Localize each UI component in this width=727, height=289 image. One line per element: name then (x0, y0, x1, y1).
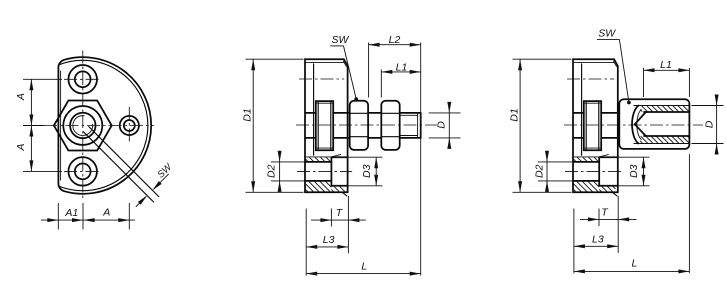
svg-text:D1: D1 (242, 108, 254, 121)
svg-text:D3: D3 (628, 164, 640, 178)
svg-text:A1: A1 (64, 207, 78, 219)
svg-text:D: D (704, 120, 716, 128)
svg-text:A: A (15, 93, 27, 101)
svg-text:L: L (361, 261, 367, 273)
svg-text:L1: L1 (660, 59, 672, 71)
svg-text:L2: L2 (389, 34, 401, 46)
svg-text:L3: L3 (323, 234, 335, 246)
svg-text:L: L (631, 258, 637, 270)
svg-text:D1: D1 (508, 108, 520, 121)
svg-text:A: A (102, 206, 110, 218)
svg-text:A: A (15, 143, 27, 151)
svg-text:D2: D2 (266, 164, 278, 178)
svg-text:SW: SW (331, 34, 349, 46)
svg-text:D: D (436, 121, 448, 129)
svg-text:D2: D2 (533, 164, 545, 178)
svg-text:D3: D3 (361, 164, 373, 178)
svg-text:L3: L3 (592, 234, 604, 246)
svg-text:SW: SW (598, 28, 616, 40)
svg-text:L1: L1 (396, 62, 408, 74)
